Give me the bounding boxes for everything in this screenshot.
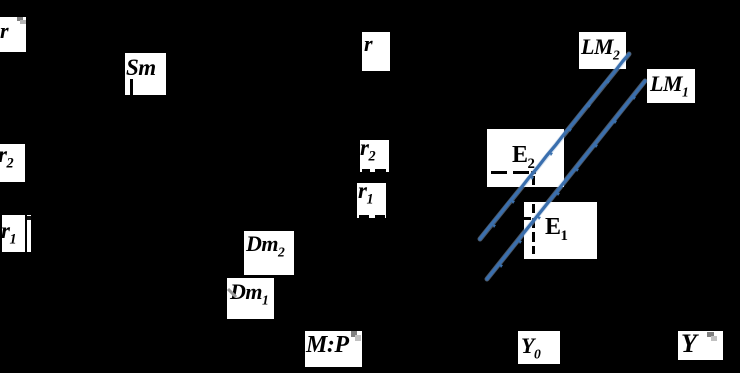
- wire white strip beside r1: [27, 215, 31, 252]
- node r2 (left panel): [0, 144, 25, 182]
- wire dashed vertical below E2: [532, 176, 535, 185]
- curve LM2: [480, 54, 629, 239]
- wire dashed horizontal to E2: [491, 171, 507, 174]
- wire dashed r2 level: [362, 169, 370, 172]
- node r (top-left axis label box): [0, 17, 26, 52]
- wire Sm vertical supply line segment: [130, 79, 133, 95]
- node E1 equilibrium box: [524, 202, 597, 259]
- node M:P (x-axis label, left panel): [305, 331, 362, 367]
- node r (right panel axis label): [362, 32, 390, 71]
- wire dashed r1 level: [359, 215, 369, 218]
- curve LM1 tick marks: [499, 96, 636, 268]
- money supply label Sm: [125, 53, 166, 95]
- x-axis arrowhead (gray, left panel): [351, 331, 357, 337]
- wire dashed horizontal at r1 level entering E1: [524, 217, 531, 220]
- curve LM1: [487, 81, 645, 279]
- curve label LM2: [579, 32, 626, 69]
- y-axis arrowhead (gray, left panel): [17, 17, 23, 21]
- node r2 (right panel): [360, 140, 389, 172]
- node r1 (left panel): [2, 215, 25, 252]
- curve label LM1: [647, 69, 695, 103]
- curve LM2 tick marks: [492, 80, 610, 228]
- wire dashed vertical through E1: [532, 204, 535, 213]
- node Y (x-axis label, right panel): [678, 331, 723, 360]
- node r1 (right panel): [357, 183, 386, 218]
- node Y0 (x-axis label, right panel): [518, 331, 560, 364]
- curve label Dm1: [227, 278, 274, 319]
- x-axis arrowhead (gray, right panel): [707, 332, 714, 337]
- node E2 equilibrium box: [487, 129, 564, 187]
- curve label Dm2: [244, 231, 294, 275]
